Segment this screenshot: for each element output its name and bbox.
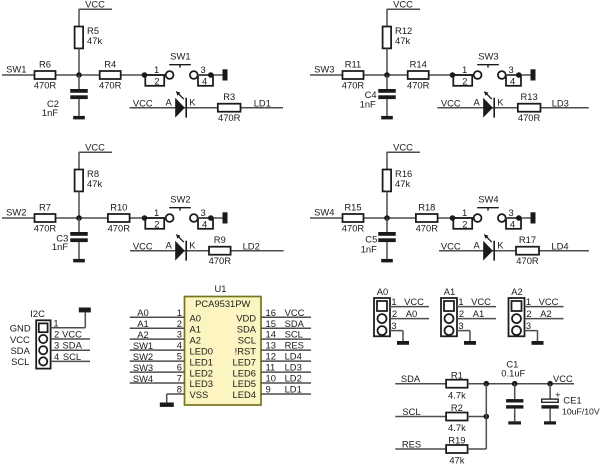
svg-text:LD2: LD2 xyxy=(285,373,302,384)
svg-text:470R: 470R xyxy=(342,223,365,234)
svg-text:470R: 470R xyxy=(108,223,131,234)
svg-text:SCL: SCL xyxy=(285,329,303,340)
wire A2 pin3 stub xyxy=(525,330,538,332)
svg-text:VCC: VCC xyxy=(133,98,153,109)
svg-text:LED5: LED5 xyxy=(233,378,256,389)
svg-text:LD2: LD2 xyxy=(243,241,260,252)
svg-text:4: 4 xyxy=(177,340,182,351)
svg-text:VCC: VCC xyxy=(471,296,491,307)
svg-text:R9: R9 xyxy=(214,234,226,245)
svg-text:R1: R1 xyxy=(451,369,463,380)
svg-text:A: A xyxy=(473,240,480,251)
connector A1 (3-pin address jumper) xyxy=(441,298,457,336)
pin 3 pad (A0) xyxy=(378,326,387,335)
wire C1 to ground xyxy=(514,409,516,422)
resistor R18 (470R) xyxy=(416,214,438,222)
svg-text:R19: R19 xyxy=(448,435,465,446)
junction node SW1-C xyxy=(208,72,214,78)
wire U1 pin 11 xyxy=(261,371,311,373)
power VCC symbol (SW1 pull-up) xyxy=(79,0,112,27)
wire A2 pin1 stub xyxy=(525,306,564,308)
wire C5 to ground xyxy=(386,242,388,259)
junction node SW3-A xyxy=(384,72,390,78)
svg-text:LD1: LD1 xyxy=(254,98,271,109)
svg-text:SCL: SCL xyxy=(11,356,29,367)
wire U1 pin 9 xyxy=(261,393,311,395)
wire LD3 row xyxy=(438,107,589,109)
svg-text:2: 2 xyxy=(154,219,159,230)
pin 3 pad (A2) xyxy=(512,326,521,335)
svg-text:470R: 470R xyxy=(518,112,541,123)
ground C3 ground xyxy=(73,259,85,263)
svg-text:1nF: 1nF xyxy=(52,241,68,252)
svg-text:4: 4 xyxy=(54,351,59,362)
LED LD4 xyxy=(483,234,494,261)
svg-text:1: 1 xyxy=(177,307,182,318)
svg-text:8: 8 xyxy=(177,384,182,395)
svg-text:A: A xyxy=(473,97,480,108)
ground SW3 ground xyxy=(531,69,536,80)
pin 3 pad (I2C) xyxy=(39,346,47,354)
svg-text:4: 4 xyxy=(510,219,515,230)
wire U1 pin 2 xyxy=(130,327,185,329)
wire A0 pin3 stub xyxy=(390,330,403,332)
svg-text:47k: 47k xyxy=(87,178,102,189)
wire A1 pin3 drop xyxy=(469,331,471,341)
svg-text:A2: A2 xyxy=(137,329,148,340)
svg-text:VCC: VCC xyxy=(62,328,82,339)
switch SW4 (tactile) xyxy=(453,208,521,229)
IC U1 PCA9531PW xyxy=(185,297,262,406)
pin 1 pad (A2, square) xyxy=(512,301,522,311)
svg-text:3: 3 xyxy=(391,320,396,331)
pin 1 pad (A1, square) xyxy=(444,301,454,311)
wire I2C pin1 ground riser xyxy=(84,312,86,327)
ground CE1 ground xyxy=(544,421,556,424)
svg-text:3: 3 xyxy=(54,340,59,351)
svg-text:15: 15 xyxy=(266,318,276,329)
switch SW3 (tactile) xyxy=(453,65,521,86)
wire SDA stub xyxy=(395,383,446,385)
svg-text:A1: A1 xyxy=(190,323,201,334)
svg-text:LED7: LED7 xyxy=(233,356,256,367)
svg-text:2: 2 xyxy=(462,76,467,87)
wire rail to C1 xyxy=(514,384,516,399)
svg-text:SW2: SW2 xyxy=(170,193,190,204)
wire R1 to VCC rail xyxy=(468,383,574,385)
svg-text:3: 3 xyxy=(508,207,513,218)
ground C2 ground xyxy=(73,116,85,120)
svg-text:1: 1 xyxy=(458,296,463,307)
junction node SW1-A xyxy=(76,72,82,78)
svg-text:R15: R15 xyxy=(344,202,361,213)
capacitor C3 (1nF) xyxy=(70,232,88,242)
svg-text:LED0: LED0 xyxy=(190,345,213,356)
svg-text:SW1: SW1 xyxy=(170,50,190,61)
svg-text:PCA9531PW: PCA9531PW xyxy=(195,298,250,309)
svg-text:470R: 470R xyxy=(99,80,122,91)
wire A0 pin2 stub xyxy=(390,318,429,320)
svg-text:A0: A0 xyxy=(190,312,201,323)
svg-text:LD3: LD3 xyxy=(552,98,569,109)
svg-text:2: 2 xyxy=(526,308,531,319)
svg-text:SDA: SDA xyxy=(11,345,31,356)
resistor R10 (470R) xyxy=(108,214,130,222)
svg-text:3: 3 xyxy=(458,320,463,331)
svg-text:VCC: VCC xyxy=(393,0,413,9)
svg-text:R11: R11 xyxy=(345,59,362,70)
svg-text:R3: R3 xyxy=(223,91,235,102)
svg-text:1: 1 xyxy=(526,296,531,307)
svg-text:R10: R10 xyxy=(110,202,127,213)
svg-text:SW2: SW2 xyxy=(133,351,153,362)
svg-text:7: 7 xyxy=(177,373,182,384)
wire pull-up common rail (vertical) xyxy=(485,384,487,449)
junction node SW3-B xyxy=(450,72,456,78)
svg-text:R6: R6 xyxy=(39,59,51,70)
svg-text:1: 1 xyxy=(462,64,467,75)
wire SW1 to ground xyxy=(198,74,223,76)
svg-text:A: A xyxy=(165,97,172,108)
ground C1 ground xyxy=(508,421,521,424)
svg-text:1: 1 xyxy=(154,207,159,218)
capacitor CE1 (10uF/10V electrolytic) xyxy=(541,389,561,409)
svg-text:VCC: VCC xyxy=(553,373,573,384)
svg-text:VCC: VCC xyxy=(85,0,105,9)
connector A0 (3-pin address jumper) xyxy=(374,298,390,336)
capacitor C1 (0.1uF) xyxy=(506,399,523,409)
svg-text:10uF/10V: 10uF/10V xyxy=(562,407,600,417)
svg-text:1: 1 xyxy=(154,64,159,75)
wire SW4 to ground xyxy=(506,217,531,219)
svg-text:VCC: VCC xyxy=(10,334,30,345)
svg-text:4: 4 xyxy=(202,219,207,230)
pin 1 pad (A0, square) xyxy=(377,301,387,311)
svg-text:SCL: SCL xyxy=(63,351,81,362)
junction VCC rail / C1 xyxy=(512,381,518,387)
wire U1 pin 8 xyxy=(167,393,185,395)
svg-text:470R: 470R xyxy=(342,80,365,91)
resistor R8 (47k) xyxy=(75,170,84,192)
resistor R5 (47k) xyxy=(75,27,84,49)
junction node SW2-C xyxy=(208,215,214,221)
svg-text:SW4: SW4 xyxy=(133,373,153,384)
wire SW3 to ground xyxy=(506,74,531,76)
wire SW2 to ground xyxy=(198,217,223,219)
pin 2 pad (A0) xyxy=(378,314,387,323)
svg-text:K: K xyxy=(497,97,504,108)
svg-text:SW1: SW1 xyxy=(6,64,26,75)
connector I2C (4-pin header) xyxy=(36,320,50,368)
LED LD3 xyxy=(483,91,494,118)
svg-text:LED6: LED6 xyxy=(233,367,256,378)
wire node to C4 xyxy=(386,75,388,89)
svg-text:LD4: LD4 xyxy=(285,351,302,362)
svg-text:LED3: LED3 xyxy=(190,378,213,389)
capacitor C5 (1nF) xyxy=(378,232,396,242)
svg-text:VCC: VCC xyxy=(133,241,153,252)
wire U1 pin 7 xyxy=(130,382,185,384)
svg-text:LED2: LED2 xyxy=(190,367,213,378)
junction node SW3-C xyxy=(516,72,522,78)
ground A2 pin3 ground xyxy=(532,341,544,345)
svg-text:SDA: SDA xyxy=(63,340,83,351)
power VCC symbol (SW3 pull-up) xyxy=(387,0,420,27)
pin 2 pad (A2) xyxy=(512,314,521,323)
wire SW4 input rail xyxy=(310,217,474,219)
svg-text:SDA: SDA xyxy=(401,373,421,384)
svg-text:A0: A0 xyxy=(137,307,148,318)
wire R16 to node xyxy=(386,191,388,218)
connector A2 (3-pin address jumper) xyxy=(509,298,525,336)
wire LD2 row xyxy=(130,250,284,252)
wire LD4 row xyxy=(439,250,589,252)
wire LD1 row xyxy=(130,107,284,109)
svg-text:3: 3 xyxy=(526,320,531,331)
wire SW2 input rail xyxy=(2,217,166,219)
resistor R13 (470R) xyxy=(518,104,541,112)
pin 1 pad (I2C, square) xyxy=(39,323,48,332)
LED LD1 xyxy=(175,91,186,118)
svg-text:1: 1 xyxy=(391,296,396,307)
svg-text:1nF: 1nF xyxy=(42,107,58,118)
resistor R11 (470R) xyxy=(343,71,364,79)
resistor R7 (470R) xyxy=(35,214,56,222)
wire node to C3 xyxy=(78,218,80,232)
wire U1 pin 13 xyxy=(261,349,311,351)
ground SW4 ground xyxy=(531,212,536,223)
svg-text:SW4: SW4 xyxy=(478,193,498,204)
wire A1 pin2 stub xyxy=(457,318,496,320)
ground U1 VSS ground xyxy=(160,403,174,407)
wire U1 pin 1 xyxy=(130,316,185,318)
svg-text:470R: 470R xyxy=(34,80,57,91)
wire node to C5 xyxy=(386,218,388,232)
svg-text:A2: A2 xyxy=(540,308,551,319)
power VCC symbol (SW4 pull-up) xyxy=(387,141,420,169)
wire A2 pin2 stub xyxy=(525,318,564,320)
LED LD2 xyxy=(175,234,186,261)
svg-text:47k: 47k xyxy=(449,455,464,465)
wire U1 pin 10 xyxy=(261,382,311,384)
svg-text:470R: 470R xyxy=(209,255,232,266)
svg-text:!RST: !RST xyxy=(235,345,257,356)
svg-text:R2: R2 xyxy=(451,402,463,413)
svg-text:LD1: LD1 xyxy=(285,384,302,395)
svg-text:2: 2 xyxy=(177,318,182,329)
svg-text:VCC: VCC xyxy=(539,296,559,307)
junction node SW4-A xyxy=(384,215,390,221)
svg-text:SCL: SCL xyxy=(402,406,420,417)
svg-text:47k: 47k xyxy=(395,35,410,46)
svg-text:3: 3 xyxy=(200,64,205,75)
svg-text:2: 2 xyxy=(459,308,464,319)
resistor R9 (470R) xyxy=(209,247,231,255)
ground I2C pin1 (bar above) xyxy=(79,308,91,313)
svg-text:1: 1 xyxy=(53,318,58,329)
svg-text:VCC: VCC xyxy=(404,296,424,307)
wire U1 pin 5 xyxy=(130,360,185,362)
resistor R2 (4.7k) xyxy=(446,413,468,421)
svg-text:R18: R18 xyxy=(418,202,435,213)
ground SW2 ground xyxy=(223,212,228,223)
junction node SW1-B xyxy=(142,72,148,78)
svg-text:A1: A1 xyxy=(473,308,484,319)
svg-text:2: 2 xyxy=(392,308,397,319)
pin 3 pad (A1) xyxy=(445,326,454,335)
wire SCL stub xyxy=(395,416,446,418)
svg-text:SW3: SW3 xyxy=(314,64,334,75)
svg-text:470R: 470R xyxy=(407,80,430,91)
svg-text:A2: A2 xyxy=(511,286,522,297)
svg-text:LD4: LD4 xyxy=(551,241,568,252)
svg-text:1nF: 1nF xyxy=(361,244,377,255)
svg-text:1: 1 xyxy=(462,207,467,218)
svg-text:R17: R17 xyxy=(519,234,536,245)
wire RES stub xyxy=(395,448,446,450)
svg-text:SCL: SCL xyxy=(238,334,256,345)
svg-text:16: 16 xyxy=(266,307,276,318)
wire SW3 input rail xyxy=(310,74,474,76)
svg-text:470R: 470R xyxy=(218,112,241,123)
switch SW2 (tactile) xyxy=(145,208,213,229)
svg-text:5: 5 xyxy=(177,351,182,362)
wire R12 to node xyxy=(386,48,388,75)
wire I2C pin1 to ground xyxy=(51,327,86,329)
wire C3 to ground xyxy=(78,242,80,259)
svg-text:SDA: SDA xyxy=(237,323,257,334)
power VCC symbol (SW2 pull-up) xyxy=(79,141,112,169)
wire A2 pin3 drop xyxy=(537,331,539,341)
wire A1 pin1 stub xyxy=(457,306,496,308)
svg-text:A0: A0 xyxy=(377,286,388,297)
svg-text:VCC: VCC xyxy=(85,141,105,152)
ground C5 ground xyxy=(381,259,393,263)
svg-text:470R: 470R xyxy=(416,223,439,234)
wire R2 to rail xyxy=(468,416,487,418)
svg-text:+: + xyxy=(555,389,561,400)
wire U1 pin 8 ground drop xyxy=(166,394,168,402)
svg-text:LED4: LED4 xyxy=(233,389,256,400)
junction VCC rail / CE1 xyxy=(547,381,553,387)
ground SW1 ground xyxy=(223,69,228,80)
wire R19 to rail xyxy=(468,448,487,450)
svg-text:LED1: LED1 xyxy=(190,356,213,367)
svg-text:K: K xyxy=(497,240,504,251)
resistor R3 (470R) xyxy=(218,104,241,112)
junction VCC rail / R2 rail xyxy=(484,381,490,387)
pin 4 pad (I2C) xyxy=(39,357,47,365)
wire I2C pin2 stub xyxy=(51,338,90,340)
svg-text:47k: 47k xyxy=(395,178,410,189)
svg-text:R14: R14 xyxy=(410,59,427,70)
wire U1 pin 12 xyxy=(261,360,311,362)
svg-text:RES: RES xyxy=(285,340,304,351)
ground A0 pin3 ground xyxy=(397,341,409,345)
svg-text:SDA: SDA xyxy=(285,318,305,329)
resistor R6 (470R) xyxy=(35,71,56,79)
junction node SW4-C xyxy=(516,215,522,221)
pin 2 pad (I2C) xyxy=(39,335,47,343)
junction node SW2-B xyxy=(142,215,148,221)
svg-text:VCC: VCC xyxy=(393,141,413,152)
svg-text:1nF: 1nF xyxy=(360,98,376,109)
svg-text:SW3: SW3 xyxy=(478,50,498,61)
pin 2 pad (A1) xyxy=(445,314,454,323)
svg-text:SW3: SW3 xyxy=(133,362,153,373)
resistor R1 (4.7k) xyxy=(446,380,468,388)
resistor R12 (47k) xyxy=(383,27,392,49)
capacitor C4 (1nF) xyxy=(378,89,396,99)
resistor R19 (47k) xyxy=(446,445,468,453)
svg-text:12: 12 xyxy=(266,351,276,362)
svg-text:SW1: SW1 xyxy=(133,340,153,351)
svg-text:2: 2 xyxy=(462,219,467,230)
wire A0 pin3 drop xyxy=(402,331,404,341)
svg-text:A0: A0 xyxy=(406,308,417,319)
svg-text:6: 6 xyxy=(177,362,182,373)
svg-text:3: 3 xyxy=(508,64,513,75)
svg-text:A: A xyxy=(165,240,172,251)
svg-text:U1: U1 xyxy=(215,283,227,294)
svg-text:SW4: SW4 xyxy=(314,207,334,218)
svg-text:2: 2 xyxy=(54,328,59,339)
svg-text:470R: 470R xyxy=(34,223,57,234)
wire U1 pin 6 xyxy=(130,371,185,373)
svg-text:LD3: LD3 xyxy=(285,362,302,373)
svg-text:VSS: VSS xyxy=(190,389,209,400)
svg-text:9: 9 xyxy=(266,384,271,395)
junction node SW4-B xyxy=(450,215,456,221)
svg-text:14: 14 xyxy=(266,329,276,340)
svg-text:A2: A2 xyxy=(190,334,201,345)
svg-text:R13: R13 xyxy=(520,91,537,102)
svg-text:GND: GND xyxy=(10,323,31,334)
wire C4 to ground xyxy=(386,99,388,116)
svg-text:0.1uF: 0.1uF xyxy=(501,368,525,379)
wire U1 pin 4 xyxy=(130,349,185,351)
wire U1 pin 3 xyxy=(130,338,185,340)
switch SW1 (tactile) xyxy=(145,65,213,86)
resistor R15 (470R) xyxy=(343,214,364,222)
ground A1 pin3 ground xyxy=(464,341,476,345)
svg-text:2: 2 xyxy=(154,76,159,87)
svg-text:CE1: CE1 xyxy=(563,395,581,406)
wire rail to CE1 xyxy=(549,384,551,399)
svg-text:K: K xyxy=(189,97,196,108)
wire CE1 to ground xyxy=(549,409,551,422)
svg-text:4: 4 xyxy=(510,76,515,87)
wire U1 pin 14 xyxy=(261,338,311,340)
svg-text:RES: RES xyxy=(402,439,421,450)
svg-text:K: K xyxy=(189,240,196,251)
wire A1 pin3 stub xyxy=(457,330,470,332)
junction rail / R2 xyxy=(484,414,490,420)
svg-text:47k: 47k xyxy=(87,35,102,46)
svg-text:3: 3 xyxy=(200,207,205,218)
wire U1 pin 16 xyxy=(261,316,311,318)
svg-text:A1: A1 xyxy=(137,318,148,329)
svg-text:I2C: I2C xyxy=(30,308,45,319)
wire A0 pin1 stub xyxy=(390,306,429,308)
ground C4 ground xyxy=(381,116,393,120)
svg-text:470R: 470R xyxy=(516,255,539,266)
resistor R14 (470R) xyxy=(408,71,429,79)
wire I2C pin3 stub xyxy=(51,349,90,351)
svg-text:SW2: SW2 xyxy=(6,207,26,218)
svg-text:A1: A1 xyxy=(444,286,455,297)
svg-text:VCC: VCC xyxy=(441,241,461,252)
